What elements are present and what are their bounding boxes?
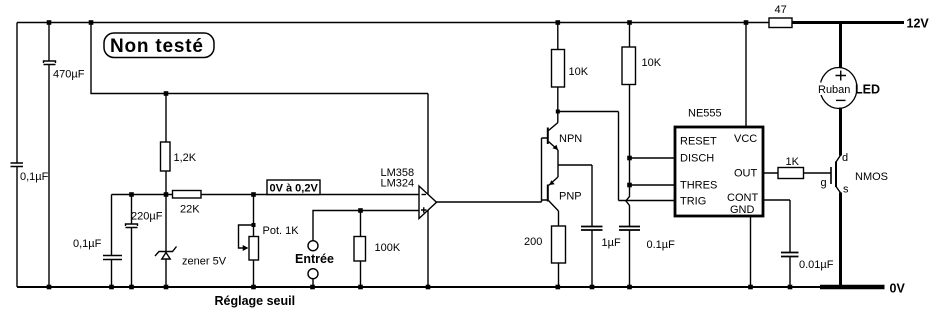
capacitor 0,1uF second [103, 256, 122, 260]
wire Entree bottom to 0V [312, 279, 314, 287]
wire 220uF branch [131, 195, 133, 288]
svg-text:Non testé: Non testé [110, 36, 204, 57]
LED plus mark [836, 71, 847, 81]
wire THRES [630, 184, 676, 186]
capacitor C 1uF [581, 227, 603, 231]
svg-text:Réglage seuil: Réglage seuil [215, 294, 296, 308]
capacitor C 470uF [44, 61, 56, 65]
wire NPN collector to 10K [557, 87, 559, 123]
node 0V junction x629.5 [627, 285, 632, 290]
wire 100K branch [360, 211, 362, 288]
node junction 220uF top [129, 192, 134, 197]
node junction 100K top [358, 208, 363, 213]
svg-text:d: d [842, 152, 848, 164]
svg-text:1µF: 1µF [602, 237, 621, 249]
svg-text:LM324: LM324 [381, 178, 415, 190]
wire bottom 0V rail [17, 286, 822, 288]
svg-text:NMOS: NMOS [855, 171, 888, 183]
wire bottom 0V rail thick [820, 285, 885, 290]
resistor R 47 [769, 18, 792, 28]
node 0V junction x131.5 [129, 285, 134, 290]
svg-text:NPN: NPN [559, 133, 582, 145]
wire OUT [763, 172, 831, 174]
wire VCC to rail [745, 23, 747, 128]
resistor R 10K first [557, 23, 559, 50]
svg-text:s: s [843, 184, 849, 196]
wire 0,1uF second branch [111, 195, 113, 288]
wire Entree to op-amp plus [313, 211, 419, 241]
node junction THRES [627, 183, 632, 188]
label Non teste box [104, 33, 214, 58]
node junction DISCH [627, 156, 632, 161]
wire left vertical rail [16, 23, 18, 288]
label boxed 0V a 0,2V [267, 180, 320, 195]
node 0V junction x360.5 [358, 285, 363, 290]
svg-text:22K: 22K [180, 204, 200, 216]
wire NPN emitter down [557, 150, 559, 177]
svg-text:THRES: THRES [680, 180, 717, 192]
node top rail junction 10K1 [556, 20, 561, 25]
node 0V junction x111.5 [109, 285, 114, 290]
node 0V junction x557.8 [556, 285, 561, 290]
LED Ruban circle [820, 68, 857, 109]
svg-text:0,1µF: 0,1µF [73, 238, 102, 250]
wire LED branch top [839, 23, 842, 69]
svg-text:PNP: PNP [559, 191, 582, 203]
wire thick 12V rail [792, 21, 904, 24]
node junction VCC rail [744, 20, 749, 25]
svg-text:RESET: RESET [680, 136, 717, 148]
wire top +12V rail [17, 22, 769, 24]
wire op-amp supply vertical [427, 94, 429, 288]
svg-text:1K: 1K [786, 156, 800, 168]
LED minus mark [836, 99, 846, 101]
svg-text:NE555: NE555 [688, 108, 722, 120]
wire shared base vertical [542, 138, 548, 202]
wire TRIG [619, 200, 676, 202]
node top rail junction x49 [47, 20, 52, 25]
capacitor C 220uF [126, 224, 138, 228]
svg-text:0,1µF: 0,1µF [20, 171, 49, 183]
svg-text:GND: GND [730, 204, 755, 216]
capacitor C 0.01uF [781, 253, 799, 257]
svg-text:zener 5V: zener 5V [182, 256, 227, 268]
capacitor 0,1uF left [11, 163, 24, 167]
node top rail junction x91 [89, 20, 94, 25]
node top rail junction 10K2 [627, 20, 632, 25]
node junction pot wiper [252, 223, 256, 227]
resistor R 1,2K [161, 142, 171, 171]
wire 1,2K branch [165, 94, 167, 252]
resistor R 22K [173, 191, 202, 199]
svg-text:12V: 12V [907, 17, 930, 31]
svg-text:OUT: OUT [734, 168, 758, 180]
svg-text:10K: 10K [569, 66, 589, 78]
svg-text:0.01µF: 0.01µF [799, 259, 834, 271]
node 0V junction x166 [164, 285, 169, 290]
IC U2 NE555 [675, 127, 763, 216]
node 0V junction x750.5 [748, 285, 753, 290]
wire 10K2 down with hop over TRIG [626, 85, 630, 288]
node 0V junction x592 [590, 285, 595, 290]
resistor R 1K [778, 168, 804, 179]
resistor R 100K [354, 237, 366, 262]
svg-text:10K: 10K [642, 57, 662, 69]
node 0V junction x49 [47, 285, 52, 290]
resistor R 200 [552, 226, 566, 263]
svg-text:0.1µF: 0.1µF [647, 239, 676, 251]
wire collector tap to TRIG [558, 112, 619, 201]
node 0V junction x790 [788, 285, 793, 290]
svg-text:g: g [821, 177, 827, 189]
svg-text:0V: 0V [890, 282, 906, 296]
connector Entree top circle [308, 241, 318, 251]
node 0V junction x253.5 [251, 285, 256, 290]
wire PNP collector to 200 [558, 211, 560, 226]
potentiometer Pot. 1K [253, 195, 255, 288]
transistor Q3 NMOS [830, 167, 832, 184]
resistor R 10K second [629, 23, 631, 48]
node junction pot top [251, 192, 256, 197]
transistor Q1 NPN [547, 128, 549, 145]
svg-text:VCC: VCC [734, 133, 757, 145]
capacitor C 0.1uF [619, 227, 640, 231]
label Ruban [817, 83, 855, 96]
svg-text:CONT: CONT [727, 192, 758, 204]
wire NMOS source to 0V [839, 193, 842, 288]
wire emitters to 1uF [558, 165, 592, 226]
svg-text:LED: LED [855, 83, 880, 97]
transistor Q2 PNP [547, 185, 549, 202]
svg-text:47: 47 [775, 4, 787, 16]
wire 470uF branch [48, 23, 50, 288]
wire DISCH [630, 157, 676, 159]
wire CONT to 0.01uF [763, 200, 790, 287]
connector Entree bottom circle [308, 269, 318, 279]
node 0V junction x312.5 [310, 285, 315, 290]
wire op-amp output [437, 201, 542, 203]
svg-text:470µF: 470µF [53, 69, 85, 81]
svg-text:200: 200 [524, 236, 542, 248]
svg-text:TRIG: TRIG [680, 196, 706, 208]
wire LED to NMOS drain [839, 108, 842, 156]
svg-text:Pot. 1K: Pot. 1K [263, 225, 300, 237]
wire threshold net y194.5 [112, 194, 420, 196]
node junction zener top [164, 192, 169, 197]
wire GND to 0V [750, 216, 752, 287]
node junction collector tap [556, 110, 560, 114]
svg-text:220µF: 220µF [131, 211, 163, 223]
svg-text:Ruban: Ruban [818, 84, 850, 96]
svg-text:DISCH: DISCH [680, 153, 714, 165]
svg-text:1,2K: 1,2K [174, 152, 197, 164]
node 0V junction x428 [426, 285, 431, 290]
wire second rail y93.5 [91, 23, 428, 94]
node junction 1,2K top [164, 91, 169, 96]
svg-text:100K: 100K [375, 242, 401, 254]
svg-text:0V à 0,2V: 0V à 0,2V [270, 183, 319, 195]
op-amp U1 LM358/LM324 [419, 186, 437, 219]
diode zener 5V [155, 247, 177, 288]
svg-text:Entrée: Entrée [295, 252, 334, 266]
